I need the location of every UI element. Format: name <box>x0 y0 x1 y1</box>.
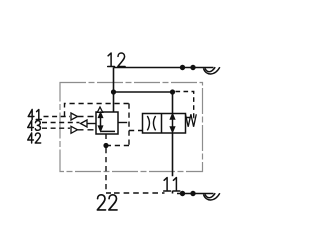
valve V1 body <box>143 114 186 134</box>
spring on V1 right side <box>186 114 197 127</box>
wire down into valve V1 <box>172 92 174 114</box>
pilot line 41 dashed <box>44 116 71 118</box>
enclosure (manifold block, gray chain line) <box>60 83 203 172</box>
pilot port 43 label <box>28 121 41 131</box>
check triangle row 1 <box>71 113 78 120</box>
check triangle row 2 (left pointing) <box>81 120 88 127</box>
coupling dots port 11 <box>180 191 185 196</box>
coupling dots port 12 <box>180 65 185 70</box>
pilot line 42 dashed <box>42 127 70 129</box>
dashed line network to junction C <box>106 145 129 147</box>
vent triangle on U1 top <box>97 107 102 112</box>
port 11 label <box>164 178 180 192</box>
port 12 label <box>108 53 125 67</box>
orifice symbol in V1 left position <box>147 116 149 130</box>
dashed stub U1 right to network <box>122 122 129 124</box>
wire U1 bottom stub <box>105 134 107 140</box>
pilot line dashed to valve V1 spring side <box>176 92 194 118</box>
wire port 12 vertical drop <box>113 68 115 113</box>
dashed line port 22 to port 11 <box>114 192 165 194</box>
pilot line 43 dashed <box>42 122 80 124</box>
pilot port 42 label <box>28 133 41 143</box>
dashed line to valve V1 left port <box>129 130 143 132</box>
wire port 11 <box>177 193 214 195</box>
valve V1 position divider <box>161 114 163 134</box>
dashed drain network vertical <box>128 104 130 146</box>
coupling hook port 11 <box>204 193 220 200</box>
dashed enclosure top edge <box>65 104 130 117</box>
wire branch to valve V1 <box>114 91 173 93</box>
pilot port 41 label <box>28 110 41 120</box>
wire row 3 to U1 <box>78 129 97 131</box>
pressure valve U1 body <box>96 112 118 134</box>
junction dot B (above valve V1) <box>170 89 175 94</box>
junction dot C <box>103 143 108 148</box>
flow arrow in V1 right position <box>171 114 175 132</box>
wire V1 down to port 11 <box>172 133 174 194</box>
junction dot A (port 12 branch) <box>111 89 116 94</box>
check triangle row 3 <box>71 126 78 133</box>
stub from U1 right port <box>118 122 122 124</box>
dashed line port 22 <box>106 148 111 193</box>
wire row 1 to U1 <box>78 116 97 118</box>
port 22 label <box>97 195 117 210</box>
double arrow inside U1 <box>99 113 103 131</box>
elbow flow path inside U1 <box>101 130 116 132</box>
coupling hook port 12 <box>204 67 220 74</box>
wire port 12 horizontal <box>114 67 214 69</box>
wire row 2 to U1 <box>87 123 96 125</box>
